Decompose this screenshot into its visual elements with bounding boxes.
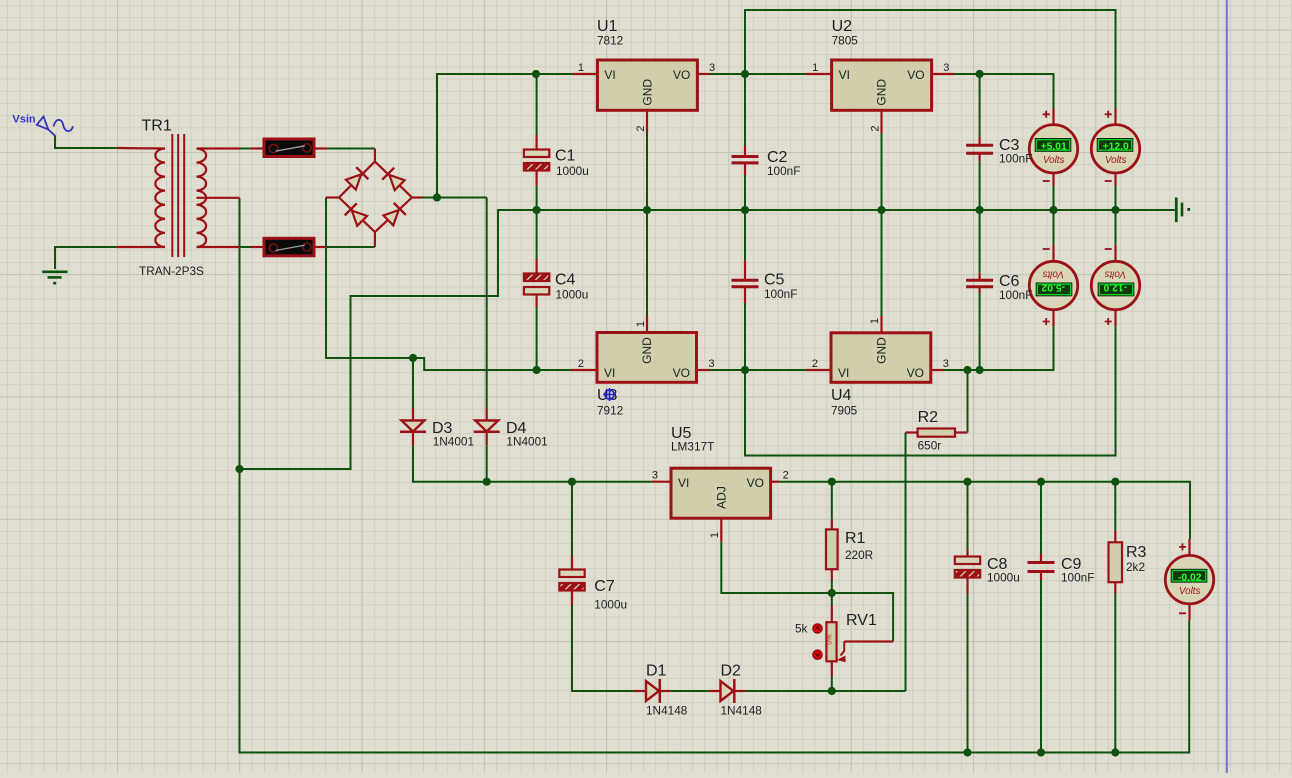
- wire diode D3 bottom to U5 VI line: [413, 445, 652, 481]
- VM1 plus sign: [1043, 111, 1050, 118]
- pin C3 top: [978, 137, 980, 145]
- svg-text:C1: C1: [555, 147, 576, 164]
- pin U1 GND (2): [646, 110, 648, 133]
- svg-text:7912: 7912: [597, 404, 623, 418]
- pin C6 top: [978, 273, 980, 280]
- pin fuse F2 right: [314, 246, 326, 248]
- svg-text:GND: GND: [875, 79, 889, 106]
- junction rail U1-U3 GND: [643, 206, 651, 214]
- svg-text:VO: VO: [673, 366, 690, 380]
- wire U2 VO to +5V voltmeter VM1: [954, 74, 1054, 109]
- junction C6 on -5V line: [976, 366, 984, 374]
- pin U2 VO (3): [931, 73, 954, 75]
- wire RV1 top lead: [831, 593, 833, 606]
- voltmeter VM5 (-0.02V): [1165, 555, 1213, 603]
- svg-text:TR1: TR1: [142, 118, 172, 135]
- svg-text:5k: 5k: [795, 622, 808, 636]
- svg-text:1: 1: [578, 62, 584, 74]
- pin C4 top: [535, 259, 537, 274]
- svg-text:2: 2: [578, 358, 584, 370]
- VM5 plus sign: [1179, 543, 1186, 550]
- wire D2 output to R2 vertical: [745, 690, 906, 692]
- pin D3 cathode: [412, 432, 414, 446]
- wire C5 bottom to -12V node to bottom of VM4 loop: [745, 303, 1116, 456]
- pin R1 top: [831, 520, 833, 530]
- junction U2 VO / C3: [976, 70, 984, 78]
- transformer TR1 primary winding: [155, 149, 165, 247]
- svg-text:R3: R3: [1126, 544, 1147, 561]
- capacitor C8 (1000u): [955, 557, 980, 578]
- svg-text:7805: 7805: [832, 34, 859, 48]
- voltmeter VM2 (+12.0V): [1091, 125, 1139, 173]
- wire C7 top lead from U5 VI line: [571, 482, 573, 556]
- junction bridge DC+ node: [433, 193, 441, 201]
- capacitor C7 (1000u): [559, 570, 584, 591]
- svg-text:U2: U2: [832, 18, 853, 35]
- svg-text:GND: GND: [641, 79, 655, 106]
- pin bridge bottom vertex: [374, 232, 376, 247]
- wire R2 top riser from -5V line: [967, 370, 969, 433]
- svg-text:1N4148: 1N4148: [721, 704, 763, 718]
- pin R2 right: [955, 431, 968, 433]
- diode D2: [721, 679, 735, 703]
- svg-text:TRAN-2P3S: TRAN-2P3S: [139, 264, 204, 278]
- pin D4 anode: [486, 408, 488, 421]
- pin C7 bottom: [571, 591, 573, 605]
- wire U5 VO output line to right columns: [779, 482, 1190, 539]
- svg-text:LM317T: LM317T: [671, 440, 714, 454]
- junction D3 top on DC- line: [409, 354, 417, 362]
- pin U2 GND (2): [880, 110, 882, 133]
- VM4 plus sign: [1105, 318, 1112, 325]
- pin C1 top: [535, 135, 537, 150]
- svg-text:-0.02: -0.02: [1178, 572, 1202, 583]
- cursor artifact over U3 label: [603, 388, 616, 401]
- pin VM5 minus: [1188, 604, 1190, 620]
- pin C2 top: [744, 146, 746, 157]
- pin R3 top: [1114, 531, 1116, 543]
- pin VM4 minus: [1114, 245, 1116, 261]
- junction U5 VO / R1: [828, 478, 836, 486]
- pin R2 left: [906, 431, 918, 433]
- svg-text:1N4148: 1N4148: [646, 704, 688, 718]
- wire R1 top lead from U5 VO node: [831, 482, 833, 520]
- wire R3 top lead: [1114, 482, 1116, 531]
- wire VM3 plus lead down to -5V line: [944, 326, 1054, 370]
- svg-text:RV1: RV1: [846, 612, 877, 629]
- regulator U5 LM317T body: [671, 468, 771, 518]
- pin fuse F1 right: [314, 147, 327, 149]
- svg-text:2k2: 2k2: [1126, 560, 1145, 574]
- svg-text:D2: D2: [721, 663, 742, 680]
- regulator U2 7805 body: [832, 60, 932, 110]
- bridge diode top-right: [382, 168, 405, 191]
- pin RV1 bottom: [831, 661, 833, 676]
- wire C1 bottom to ground rail to C4 top: [536, 185, 538, 259]
- junction R3 bottom rail: [1111, 748, 1119, 756]
- wire U2 GND to ground rail to U4 GND: [881, 133, 883, 316]
- wire diode D3 top lead: [412, 358, 414, 408]
- pin VM4 plus: [1114, 310, 1116, 326]
- pin D1 anode: [634, 690, 646, 692]
- pin U4 GND (1): [880, 316, 882, 333]
- voltmeter VM4 (-12.0V, inverted): [1091, 261, 1139, 309]
- transformer TR1 core: [172, 134, 184, 257]
- pin R1 bottom: [831, 569, 833, 580]
- pin VM2 minus: [1114, 174, 1116, 186]
- wire C2 bottom through ground rail to C5: [744, 164, 746, 261]
- svg-text:-12.0: -12.0: [1103, 282, 1127, 293]
- pin C5 bottom: [744, 287, 746, 303]
- pin VM1 plus: [1052, 109, 1054, 125]
- wire RV1 wiper loop: [832, 593, 893, 642]
- wire VM2 minus through rail to VM4 minus: [1115, 185, 1117, 244]
- regulator U4 7905 body: [831, 333, 931, 383]
- svg-text:0%: 0%: [827, 634, 834, 644]
- svg-text:650r: 650r: [918, 439, 942, 453]
- bridge rectifier frame: [339, 162, 412, 233]
- svg-text:VO: VO: [673, 68, 690, 82]
- capacitor C5 (100nF): [732, 280, 759, 287]
- pin fuse F2 left: [251, 246, 264, 248]
- wire TR1 primary bottom to ground: [55, 247, 117, 269]
- wire U1 GND to ground rail to U3 GND: [646, 133, 648, 316]
- junction C7 on U5 VI line: [568, 478, 576, 486]
- junction C8 bottom rail: [963, 748, 971, 756]
- RV1 increment button: [813, 624, 822, 633]
- potentiometer RV1 body: [826, 622, 836, 661]
- pin R3 bottom: [1114, 582, 1116, 593]
- svg-text:Volts: Volts: [1105, 155, 1127, 166]
- wire R3 bottom to bottom rail: [1114, 593, 1116, 753]
- svg-text:2: 2: [812, 358, 818, 370]
- junction C4 on U3 VI line: [533, 366, 541, 374]
- svg-text:3: 3: [943, 62, 949, 74]
- wire C8 top lead: [967, 482, 969, 549]
- wire DC+ riser up to U1 input rail: [437, 74, 573, 198]
- diode D4: [474, 421, 500, 432]
- pin bridge left vertex: [326, 196, 339, 198]
- wire TR1 secondary top to fuse F1: [240, 148, 251, 150]
- wire ground rail: [240, 210, 1177, 469]
- svg-text:GND: GND: [875, 337, 889, 364]
- wire C6 bottom to -5V node: [979, 293, 981, 370]
- junction RV1 bottom on D1-D2 line: [828, 687, 836, 695]
- svg-text:1N4001: 1N4001: [506, 435, 547, 449]
- ground terminal (right end of ground rail): [1176, 198, 1182, 223]
- junction ground to center-tap vertical: [235, 465, 243, 473]
- pin C7 top: [571, 556, 573, 570]
- wire C9 bottom to bottom rail: [1040, 580, 1042, 753]
- junction C8 top: [963, 478, 971, 486]
- svg-text:Volts: Volts: [1042, 268, 1064, 279]
- svg-text:+12.0: +12.0: [1103, 142, 1129, 153]
- svg-text:3: 3: [943, 358, 949, 370]
- pin C1 bottom: [535, 170, 537, 185]
- pin U3 VO (3): [697, 369, 710, 371]
- capacitor C9 (100nF): [1028, 563, 1055, 572]
- pin U4 VI (2): [806, 369, 831, 371]
- junction U1 VO / C2 / top feed: [741, 70, 749, 78]
- bridge diode bottom-left: [345, 203, 368, 226]
- svg-text:ADJ: ADJ: [715, 486, 729, 509]
- svg-text:3: 3: [652, 470, 658, 482]
- svg-text:Volts: Volts: [1043, 155, 1065, 166]
- wire C8 bottom to bottom rail: [967, 594, 969, 753]
- wire U3 VO to U4 VI: [710, 369, 807, 371]
- wire U1 VO to U2 VI: [710, 73, 806, 75]
- fuse F2 (bottom): [264, 238, 314, 256]
- junction U3 VO / C5 / -12 net: [741, 366, 749, 374]
- pin fuse F1 left: [251, 147, 264, 149]
- svg-text:100nF: 100nF: [767, 164, 800, 178]
- pin VM5 plus: [1188, 539, 1190, 555]
- VM3 plus sign: [1043, 318, 1050, 325]
- svg-text:Vsin: Vsin: [12, 113, 36, 125]
- VM3 minus sign: [1043, 248, 1050, 250]
- pin C2 bottom: [744, 163, 746, 175]
- pin TR1 primary top: [117, 147, 165, 150]
- pin U3 GND (1): [646, 316, 648, 333]
- svg-text:3: 3: [709, 358, 715, 370]
- wire between D1 and D2: [670, 690, 708, 692]
- capacitor C2 (100nF): [732, 157, 759, 163]
- diode D3: [400, 421, 426, 432]
- resistor R1 body: [826, 529, 838, 569]
- pin D3 anode: [412, 408, 414, 421]
- svg-text:C7: C7: [594, 578, 615, 595]
- pin C5 top: [744, 261, 746, 281]
- wire VM1 minus through rail to VM3 minus: [1053, 185, 1055, 244]
- svg-text:3: 3: [709, 62, 715, 74]
- svg-text:1: 1: [709, 532, 721, 538]
- svg-text:+5.01: +5.01: [1041, 142, 1067, 153]
- wire bridge DC+ right vertex to riser: [422, 197, 487, 199]
- junction C1 top / U1 VI: [532, 70, 540, 78]
- junction rail C2-C5: [741, 206, 749, 214]
- pin C9 top: [1040, 554, 1042, 563]
- pin RV1 wiper arrow segment: [841, 642, 845, 656]
- svg-text:2: 2: [783, 470, 789, 482]
- svg-text:U4: U4: [831, 387, 852, 404]
- wire C4 bottom to U3 VI node: [536, 307, 538, 370]
- svg-text:C4: C4: [555, 272, 576, 289]
- svg-text:R2: R2: [918, 409, 939, 426]
- pin TR1 secondary top: [197, 147, 241, 149]
- wire fuse F2 to bridge bottom vertex: [326, 246, 375, 248]
- wire DC+ down to diode D4: [486, 198, 488, 408]
- pin VM1 minus: [1052, 174, 1054, 186]
- svg-text:1: 1: [812, 62, 818, 74]
- svg-text:VO: VO: [907, 68, 924, 82]
- svg-text:1000u: 1000u: [556, 288, 589, 302]
- wire C7 bottom down to diode D1: [572, 605, 634, 691]
- pin C6 bottom: [978, 287, 980, 293]
- wire diode D4 bottom lead: [486, 445, 488, 481]
- pin VM2 plus: [1114, 109, 1116, 125]
- resistor R2 body: [918, 429, 955, 437]
- wire R2 left to long vertical down to D2 output: [905, 433, 907, 692]
- svg-text:Volts: Volts: [1104, 268, 1126, 279]
- svg-text:100nF: 100nF: [1061, 571, 1094, 585]
- pin C8 bottom: [966, 578, 968, 595]
- wire C9 top lead: [1040, 482, 1042, 554]
- pin VM3 minus: [1052, 245, 1054, 261]
- diode D1: [646, 679, 660, 703]
- wire RV1 bottom lead to D1-D2 line: [831, 676, 833, 691]
- wire Vsin output down-right to TR1 primary top: [55, 136, 117, 149]
- ground symbol (left, TR1 primary): [42, 272, 67, 283]
- wire +12V top feed to voltmeter VM2: [745, 10, 1116, 109]
- svg-text:VI: VI: [604, 366, 615, 380]
- svg-text:100nF: 100nF: [999, 288, 1032, 302]
- svg-text:VI: VI: [678, 476, 689, 490]
- pin D2 anode: [709, 690, 721, 692]
- RV1 decrement button: [813, 650, 822, 659]
- VM1 minus sign: [1043, 180, 1050, 182]
- svg-text:7905: 7905: [831, 404, 858, 418]
- svg-text:1N4001: 1N4001: [433, 435, 474, 449]
- pin U1 VI (1): [573, 73, 597, 75]
- junction rail C1-C4: [533, 206, 541, 214]
- svg-text:220R: 220R: [845, 548, 873, 562]
- VM5 minus sign: [1179, 612, 1186, 614]
- svg-text:D1: D1: [646, 663, 667, 680]
- junction C9 top: [1037, 478, 1045, 486]
- svg-text:2: 2: [870, 125, 882, 131]
- pin bridge top vertex: [374, 149, 376, 162]
- wire R1 bottom to RV1 top node: [831, 580, 833, 593]
- capacitor C3 (100nF): [966, 145, 993, 153]
- svg-text:7812: 7812: [597, 34, 623, 48]
- svg-text:1: 1: [635, 321, 647, 327]
- pin RV1 top: [831, 606, 833, 623]
- svg-text:1: 1: [869, 318, 881, 324]
- wire fuse F1 to bridge top vertex: [327, 148, 375, 150]
- pin U1 VO (3): [697, 73, 710, 75]
- svg-text:VI: VI: [604, 68, 615, 82]
- VM2 minus sign: [1105, 180, 1112, 182]
- wire bridge DC- left vertex down to node: [326, 198, 413, 359]
- pin VM3 plus: [1052, 310, 1054, 326]
- svg-text:1000u: 1000u: [594, 598, 627, 612]
- svg-text:2: 2: [635, 125, 647, 131]
- VM4 minus sign: [1105, 248, 1112, 250]
- svg-text:GND: GND: [640, 337, 654, 364]
- junction rail VM1-VM3: [1049, 206, 1057, 214]
- svg-text:100nF: 100nF: [764, 287, 797, 301]
- sheet border (blue): [1226, 0, 1228, 773]
- pin D1 cathode: [660, 690, 670, 692]
- generator Vsin symbol: [37, 117, 73, 136]
- capacitor C1 (1000u): [524, 150, 549, 171]
- junction rail U2-U4 GND: [877, 206, 885, 214]
- transformer TR1 secondary winding: [197, 149, 207, 247]
- voltmeter VM3 (-5.02V, inverted): [1029, 261, 1077, 309]
- svg-text:1000u: 1000u: [987, 571, 1020, 585]
- wire C2 top lead: [744, 74, 746, 146]
- regulator U1 7812 body: [597, 60, 697, 110]
- junction R1 / RV1 / ADJ node: [828, 589, 836, 597]
- svg-text:100nF: 100nF: [999, 152, 1032, 166]
- svg-text:-5.02: -5.02: [1041, 282, 1065, 293]
- bridge diode top-left: [345, 167, 368, 190]
- wire C1 top lead: [536, 74, 538, 135]
- wire C3 top lead: [979, 74, 981, 137]
- pin C3 bottom: [978, 153, 980, 161]
- pin TR1 secondary bottom: [197, 246, 241, 248]
- junction D4 on U5 VI line: [483, 478, 491, 486]
- wire DC- jog to U3 VI: [413, 358, 571, 370]
- capacitor C6 (100nF): [966, 280, 993, 287]
- wire U5 ADJ down and right to R1 bottom node: [721, 542, 832, 593]
- bridge diode bottom-right: [382, 203, 405, 226]
- svg-text:1000u: 1000u: [556, 164, 589, 178]
- voltmeter VM1 (+5.01V): [1029, 125, 1077, 173]
- regulator U3 7912 body: [597, 333, 697, 383]
- svg-text:Volts: Volts: [1179, 586, 1201, 597]
- fuse F1 (top): [264, 139, 314, 157]
- svg-text:VO: VO: [747, 476, 764, 490]
- pin C8 top: [966, 549, 968, 557]
- wire TR1 secondary bottom to fuse F2: [240, 246, 251, 248]
- svg-text:U1: U1: [597, 18, 618, 35]
- pin U3 VI (2): [571, 369, 597, 371]
- pin C4 bottom: [535, 294, 537, 307]
- VM2 plus sign: [1105, 111, 1112, 118]
- svg-text:C5: C5: [764, 272, 785, 289]
- pin D4 cathode: [486, 432, 488, 446]
- resistor R3 body: [1109, 542, 1123, 582]
- pin D2 cathode: [735, 690, 745, 692]
- junction rail C3-C6: [976, 206, 984, 214]
- pin U5 VI (3): [652, 481, 671, 483]
- pin TR1 secondary center tap: [197, 197, 240, 199]
- pin RV1 wiper: [844, 640, 893, 642]
- pin U4 VO (3): [931, 369, 944, 371]
- junction R2 riser on -5V line: [963, 366, 971, 374]
- capacitor C4 (1000u): [524, 274, 549, 295]
- pin C9 bottom: [1040, 572, 1042, 581]
- pin U2 VI (1): [806, 73, 832, 75]
- wire TR1 center tap down long vertical to bottom rail: [240, 198, 1190, 753]
- svg-text:VO: VO: [907, 366, 924, 380]
- pin TR1 primary bottom: [117, 246, 165, 248]
- pin bridge right vertex: [412, 196, 422, 198]
- junction rail VM2-VM4: [1111, 206, 1119, 214]
- svg-text:VI: VI: [839, 68, 850, 82]
- svg-text:R1: R1: [845, 530, 866, 547]
- junction C9 bottom rail: [1037, 748, 1045, 756]
- junction R3 top: [1111, 478, 1119, 486]
- pin U5 ADJ (1): [720, 518, 722, 542]
- pin U5 VO (2): [771, 481, 780, 483]
- wire C3 bottom to ground rail to C6 top: [979, 161, 981, 273]
- svg-text:VI: VI: [838, 366, 849, 380]
